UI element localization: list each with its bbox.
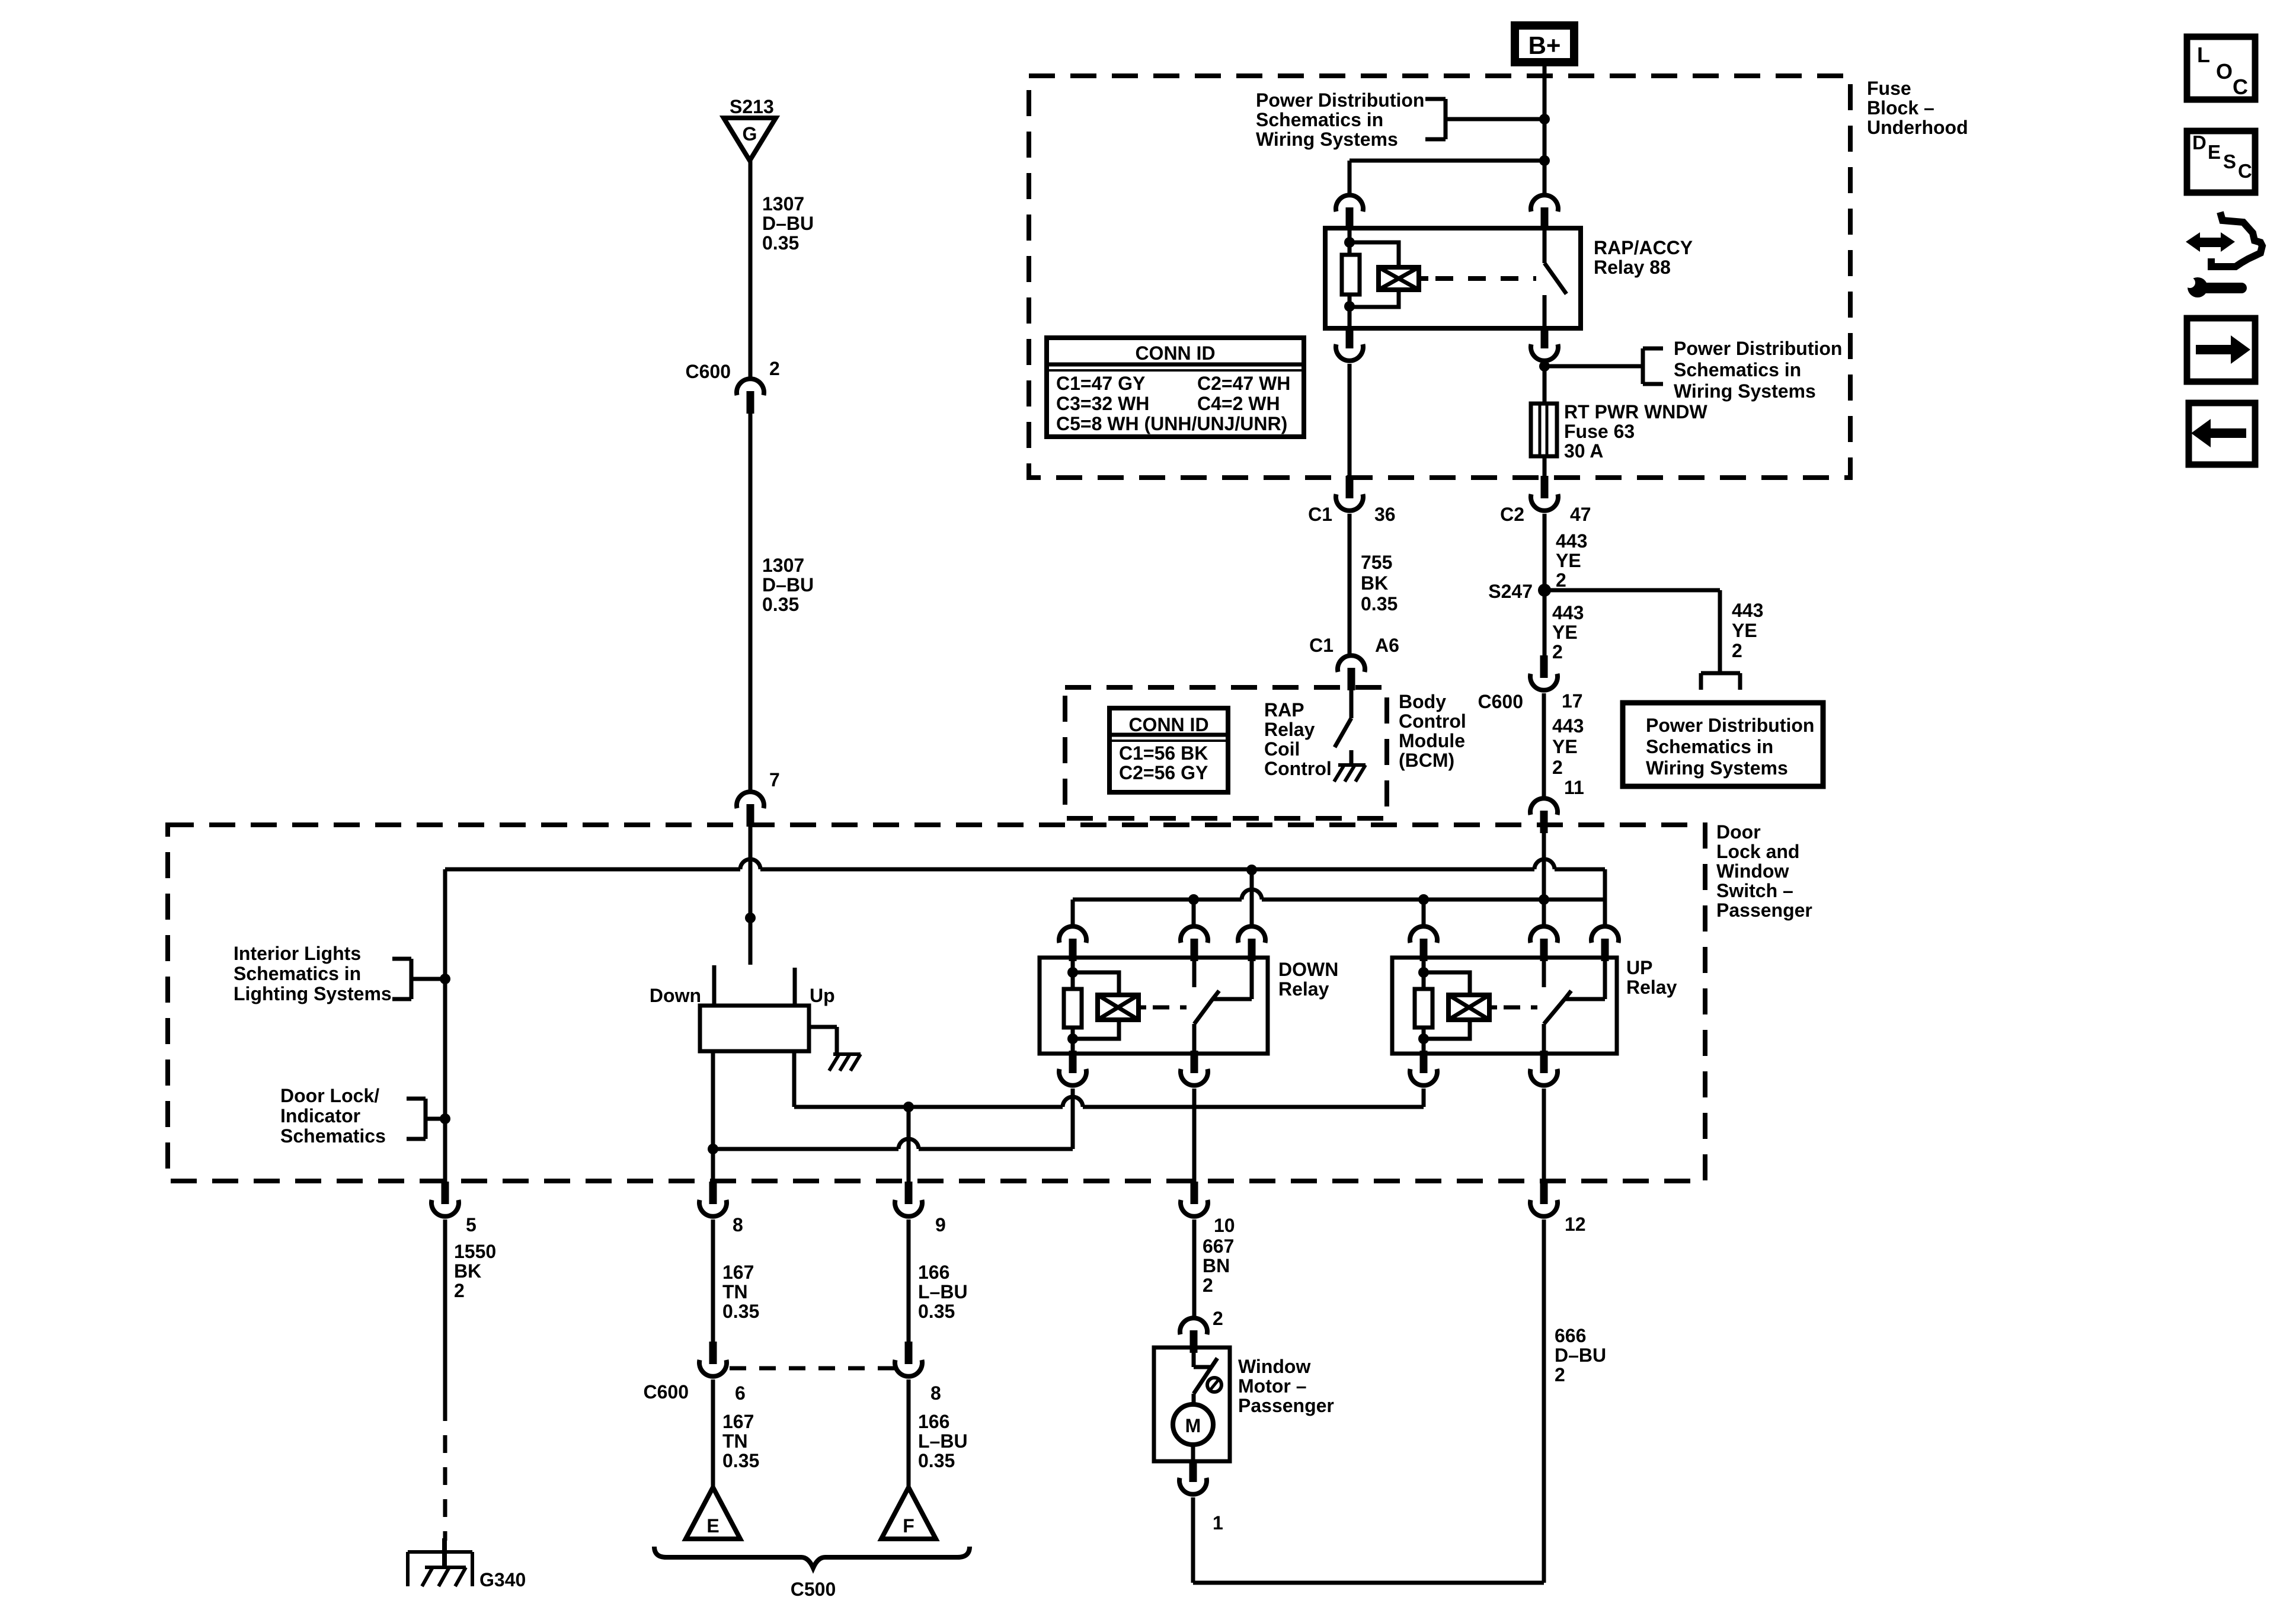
svg-text:YE: YE bbox=[1552, 622, 1578, 643]
crossover hop h2 over common wire bbox=[1242, 889, 1262, 900]
wire h2 stub 2402 bbox=[1422, 900, 1426, 924]
svg-text:0.35: 0.35 bbox=[762, 594, 799, 615]
junction dot h2 at 2014 bbox=[1188, 894, 1199, 905]
svg-text:CONN ID: CONN ID bbox=[1128, 714, 1208, 735]
wire UP nc pin in bbox=[1542, 960, 1546, 987]
wire 166 lower bbox=[907, 1379, 911, 1489]
junction dot door lock bbox=[440, 1113, 450, 1124]
svg-text:1307: 1307 bbox=[762, 555, 804, 576]
junction dot to connector 9 bbox=[903, 1102, 914, 1112]
svg-text:L–BU: L–BU bbox=[918, 1430, 968, 1452]
svg-text:2: 2 bbox=[1203, 1275, 1213, 1296]
junction dot h2 wire 11 bbox=[1539, 894, 1549, 905]
wire switch lower contact bbox=[1543, 295, 1547, 330]
wire DOWN switch out down bbox=[1192, 1089, 1197, 1183]
box Power Distribution Schematics in Wiring Systems bbox=[1623, 703, 1823, 786]
label pin 6 bbox=[735, 1382, 746, 1404]
junction dot DOWN coil top bbox=[1067, 967, 1078, 978]
svg-text:2: 2 bbox=[1555, 1364, 1565, 1385]
reference bracket top bbox=[1425, 99, 1446, 139]
label UP Relay bbox=[1626, 957, 1677, 998]
svg-text:Wiring Systems: Wiring Systems bbox=[1256, 129, 1398, 150]
svg-text:BK: BK bbox=[1361, 572, 1388, 594]
bus wire lower h2 bbox=[1073, 898, 1605, 902]
label Body Control Module BCM bbox=[1399, 691, 1466, 771]
connector DOWN coil bottom bbox=[1059, 1051, 1086, 1086]
svg-text:S213: S213 bbox=[730, 96, 774, 117]
label Down bbox=[650, 985, 701, 1006]
label 11 bbox=[1564, 777, 1584, 798]
svg-text:C1=47 GY: C1=47 GY bbox=[1056, 373, 1145, 394]
wire coil pin into relay bbox=[1348, 230, 1352, 255]
label 17 bbox=[1562, 690, 1583, 712]
svg-text:C4=2 WH: C4=2 WH bbox=[1197, 393, 1280, 414]
svg-text:F: F bbox=[903, 1515, 914, 1537]
label C500 bbox=[791, 1579, 836, 1600]
svg-text:Door: Door bbox=[1716, 821, 1761, 843]
bus wire upper h1 bbox=[445, 868, 1605, 872]
svg-text:2: 2 bbox=[1552, 757, 1563, 778]
svg-text:D–BU: D–BU bbox=[762, 574, 814, 596]
svg-text:443: 443 bbox=[1732, 600, 1763, 621]
connector C600 pin 2 bbox=[737, 379, 764, 414]
label C600 mid bbox=[1478, 691, 1524, 712]
label Door Lock and Window Switch Passenger bbox=[1716, 821, 1812, 921]
label C1 bbox=[1308, 504, 1332, 525]
svg-text:0.35: 0.35 bbox=[1361, 593, 1398, 614]
svg-text:CONN ID: CONN ID bbox=[1135, 343, 1215, 364]
svg-text:Schematics in: Schematics in bbox=[1646, 736, 1773, 757]
svg-text:RAP/ACCY: RAP/ACCY bbox=[1594, 237, 1693, 258]
body control module dashed box bbox=[1065, 687, 1387, 818]
wire coil bottom to box edge bbox=[1348, 295, 1352, 330]
label G340 bbox=[479, 1569, 526, 1590]
svg-text:Door Lock/: Door Lock/ bbox=[280, 1085, 379, 1106]
connector UP coil bottom bbox=[1410, 1051, 1437, 1086]
crossover hop h1 over wire 11 bbox=[1534, 859, 1555, 869]
connector pin 7 into switch box bbox=[737, 792, 764, 827]
rocker switch body bbox=[700, 1006, 809, 1051]
wire up-side bus y1868 bbox=[794, 1105, 1424, 1109]
svg-text:Down: Down bbox=[650, 985, 701, 1006]
wire down-side bus y1939 bbox=[713, 1147, 1073, 1151]
svg-text:L: L bbox=[2197, 43, 2210, 67]
junction dot fuse branch bbox=[1539, 361, 1550, 372]
crossover hop h1 over center wire bbox=[740, 859, 760, 869]
connector DOWN nc top pin bbox=[1181, 926, 1208, 961]
svg-text:443: 443 bbox=[1552, 715, 1584, 737]
svg-text:12: 12 bbox=[1565, 1214, 1586, 1235]
connector DOWN coil top pin bbox=[1059, 926, 1086, 961]
label 755 BK 0.35 bbox=[1361, 552, 1398, 614]
svg-text:D–BU: D–BU bbox=[762, 213, 814, 234]
crossover hop y1939 bbox=[898, 1139, 919, 1149]
wire DOWN common in bbox=[1213, 960, 1252, 999]
svg-text:Wiring Systems: Wiring Systems bbox=[1646, 757, 1788, 779]
fuse 63 symbol bbox=[1531, 404, 1557, 456]
relay box DOWN bbox=[1040, 958, 1268, 1054]
svg-text:1307: 1307 bbox=[762, 193, 804, 215]
wire C2-47 to S247 bbox=[1543, 514, 1547, 590]
connector DOWN switch bottom bbox=[1181, 1051, 1208, 1086]
label Power Distribution Schematics right bbox=[1674, 338, 1842, 402]
crossover hop y1868 bbox=[1063, 1097, 1083, 1107]
fuse block underhood dashed box bbox=[1029, 76, 1850, 478]
svg-text:30 A: 30 A bbox=[1564, 440, 1603, 462]
label 8 bbox=[733, 1214, 743, 1235]
svg-text:Window: Window bbox=[1716, 860, 1789, 882]
svg-text:C3=32 WH: C3=32 WH bbox=[1056, 393, 1149, 414]
wire S213 to C600 bbox=[749, 161, 753, 377]
coil symbol X-box UP bbox=[1448, 995, 1489, 1020]
relay box UP bbox=[1392, 958, 1617, 1054]
connector exit 12 bbox=[1530, 1182, 1558, 1217]
svg-text:10: 10 bbox=[1214, 1215, 1235, 1236]
svg-text:1: 1 bbox=[1213, 1512, 1223, 1534]
label 167 TN 0.35 upper bbox=[722, 1262, 759, 1322]
label 443 YE 2 below C600-17 bbox=[1552, 715, 1584, 778]
svg-text:2: 2 bbox=[769, 358, 780, 379]
switch blade UP bbox=[1544, 991, 1571, 1024]
terminal triangle E bbox=[686, 1487, 740, 1539]
connector relay switch bottom pin bbox=[1531, 326, 1558, 361]
label 166 L-BU 0.35 upper bbox=[918, 1262, 968, 1322]
wire DOWN coil bottom out bbox=[1071, 1028, 1075, 1055]
label RAP/ACCY Relay 88 bbox=[1594, 237, 1693, 278]
icon LOC box bbox=[2187, 37, 2255, 100]
svg-text:BK: BK bbox=[454, 1260, 481, 1282]
svg-text:Wiring Systems: Wiring Systems bbox=[1674, 380, 1816, 402]
svg-text:A6: A6 bbox=[1375, 635, 1399, 656]
ground triangle G S213 bbox=[724, 118, 776, 161]
connector motor pin 1 bbox=[1179, 1459, 1207, 1494]
label 443 YE 2 right branch bbox=[1732, 600, 1763, 661]
svg-text:Fuse: Fuse bbox=[1867, 78, 1911, 99]
coil loop UP bbox=[1424, 972, 1470, 1039]
wire blade to motor bbox=[1192, 1394, 1196, 1406]
svg-text:C600: C600 bbox=[644, 1381, 689, 1403]
dashed actuator link UP bbox=[1489, 1006, 1537, 1010]
label Interior Lights Schematics bbox=[234, 943, 392, 1004]
wire DOWN coil to bus bbox=[1071, 1089, 1075, 1149]
svg-text:C1: C1 bbox=[1308, 504, 1332, 525]
junction dot switch common bbox=[745, 913, 756, 923]
reference bracket door lock bbox=[407, 1099, 445, 1139]
label Fuse Block Underhood bbox=[1867, 78, 1968, 138]
wire coil branch down bbox=[1348, 161, 1352, 194]
switch contact pin Down bbox=[712, 965, 717, 1007]
door lock and window switch dashed box bbox=[168, 825, 1705, 1181]
svg-text:Relay: Relay bbox=[1278, 978, 1329, 1000]
wire S247 branch right bbox=[1544, 590, 1720, 671]
wire UP coil pin in bbox=[1422, 960, 1426, 989]
junction dot DOWN coil bottom bbox=[1067, 1033, 1078, 1044]
svg-text:(BCM): (BCM) bbox=[1399, 750, 1454, 771]
coil symbol X-box RAP bbox=[1379, 267, 1419, 290]
svg-text:Coil: Coil bbox=[1264, 738, 1300, 760]
svg-text:Lock and: Lock and bbox=[1716, 841, 1799, 862]
svg-text:667: 667 bbox=[1203, 1235, 1234, 1257]
wire 11 to UP relay pin bbox=[1542, 900, 1546, 924]
svg-text:TN: TN bbox=[722, 1430, 748, 1452]
label Power Distribution Schematics top bbox=[1256, 89, 1424, 150]
wire DOWN switch out bbox=[1192, 1024, 1197, 1055]
svg-text:C: C bbox=[2233, 75, 2248, 99]
svg-text:O: O bbox=[2216, 59, 2233, 84]
wire BCM switch upper bbox=[1350, 689, 1354, 718]
connector UP nc top pin bbox=[1530, 926, 1558, 961]
svg-text:Schematics in: Schematics in bbox=[234, 963, 361, 984]
label C600 lower bbox=[644, 1381, 689, 1403]
breaker thermal circle bbox=[1207, 1378, 1221, 1392]
svg-text:Block –: Block – bbox=[1867, 97, 1934, 119]
svg-text:M: M bbox=[1185, 1415, 1201, 1436]
wire h2 stub 2014 bbox=[1192, 900, 1196, 924]
svg-text:Switch –: Switch – bbox=[1716, 880, 1793, 901]
svg-text:Module: Module bbox=[1399, 730, 1465, 751]
svg-text:Schematics in: Schematics in bbox=[1256, 109, 1383, 130]
svg-text:B+: B+ bbox=[1528, 31, 1561, 59]
junction dot UP coil bottom bbox=[1418, 1033, 1429, 1044]
svg-text:C2: C2 bbox=[1500, 504, 1524, 525]
wire C600-2 to connector 7 bbox=[749, 414, 753, 790]
off-page staple symbol bbox=[1701, 673, 1740, 690]
wire pin 11 into box bbox=[1542, 833, 1546, 900]
svg-text:C5=8 WH (UNH/UNJ/UNR): C5=8 WH (UNH/UNJ/UNR) bbox=[1056, 413, 1287, 434]
svg-text:7: 7 bbox=[769, 769, 780, 790]
svg-text:666: 666 bbox=[1555, 1325, 1586, 1346]
label 167 TN 0.35 lower bbox=[722, 1411, 759, 1471]
svg-text:9: 9 bbox=[935, 1214, 946, 1235]
svg-text:167: 167 bbox=[722, 1262, 754, 1283]
coil symbol X-box DOWN bbox=[1098, 995, 1139, 1020]
junction dot B+ bracket bbox=[1539, 114, 1550, 124]
connector exit 9 bbox=[895, 1182, 922, 1217]
svg-text:Interior Lights: Interior Lights bbox=[234, 943, 361, 964]
breaker blade motor bbox=[1194, 1358, 1217, 1394]
svg-text:Schematics: Schematics bbox=[280, 1125, 386, 1147]
svg-text:Control: Control bbox=[1399, 710, 1466, 732]
svg-text:RT PWR WNDW: RT PWR WNDW bbox=[1564, 401, 1708, 422]
label 1307 D-BU 0.35 upper bbox=[762, 193, 814, 254]
label pin 8 bbox=[930, 1382, 941, 1404]
svg-text:Power Distribution: Power Distribution bbox=[1646, 715, 1814, 736]
switch blade RAP bbox=[1544, 263, 1566, 294]
connector UP coil top pin bbox=[1410, 926, 1437, 961]
wire switch output up-side bbox=[792, 1051, 797, 1107]
icon DESC box bbox=[2187, 131, 2255, 193]
svg-text:C600: C600 bbox=[686, 361, 731, 382]
motor circle M bbox=[1173, 1404, 1213, 1445]
connector relay coil top pin bbox=[1336, 195, 1363, 230]
svg-text:Power Distribution: Power Distribution bbox=[1674, 338, 1842, 359]
svg-text:C2=47 WH: C2=47 WH bbox=[1197, 373, 1290, 394]
svg-text:C1: C1 bbox=[1309, 635, 1334, 656]
reference bracket right bbox=[1643, 348, 1663, 384]
wire switch output down-side bbox=[711, 1051, 715, 1183]
connector C600 pin 17 bbox=[1530, 655, 1558, 690]
label C2 bbox=[1500, 504, 1524, 525]
reference bracket interior lights bbox=[392, 959, 445, 999]
svg-text:D: D bbox=[2192, 132, 2207, 153]
junction dot coil bottom bbox=[1344, 301, 1355, 312]
wire h2 left end down bbox=[1071, 900, 1075, 924]
wire switch pin into relay bbox=[1543, 230, 1547, 263]
svg-text:0.35: 0.35 bbox=[722, 1450, 759, 1471]
connector DOWN common top pin bbox=[1238, 926, 1265, 961]
connector relay coil bottom pin bbox=[1336, 326, 1363, 361]
svg-text:5: 5 bbox=[466, 1214, 477, 1235]
connector exit 8 bbox=[699, 1182, 727, 1217]
label A6 bbox=[1375, 635, 1399, 656]
motor box bbox=[1154, 1347, 1230, 1461]
icon schematic-view double arrow bbox=[2186, 232, 2235, 252]
svg-text:C2=56 GY: C2=56 GY bbox=[1119, 762, 1208, 783]
connector UP switch bottom bbox=[1530, 1051, 1558, 1086]
dashed actuator link DOWN bbox=[1139, 1006, 1187, 1010]
wire UP coil bottom out bbox=[1422, 1028, 1426, 1055]
table CONN ID fuse block bbox=[1047, 338, 1304, 437]
svg-text:C1=56 BK: C1=56 BK bbox=[1119, 742, 1208, 764]
label 667 BN 2 bbox=[1203, 1235, 1234, 1296]
svg-text:755: 755 bbox=[1361, 552, 1392, 573]
resistor relay coil bbox=[1342, 255, 1360, 295]
wire connector 9 down bbox=[907, 1107, 911, 1183]
svg-text:443: 443 bbox=[1556, 530, 1587, 552]
junction splice S247 bbox=[1538, 584, 1551, 597]
svg-text:Fuse 63: Fuse 63 bbox=[1564, 421, 1635, 442]
wire B+ down to relay bbox=[1543, 66, 1547, 194]
svg-text:Motor –: Motor – bbox=[1238, 1375, 1307, 1397]
ground G340 symbol bbox=[408, 1538, 472, 1586]
label DOWN Relay bbox=[1278, 959, 1338, 1000]
wire bracket to B+ wire bbox=[1446, 117, 1544, 121]
connector C600 pin 8 bbox=[895, 1342, 922, 1377]
svg-text:Indicator: Indicator bbox=[280, 1105, 360, 1126]
dashed actuator link RAP bbox=[1419, 276, 1536, 281]
coil loop DOWN bbox=[1073, 972, 1119, 1039]
wire motor return bbox=[1193, 1219, 1544, 1583]
connector C2 pin 47 bbox=[1531, 476, 1558, 511]
label C600 upper bbox=[686, 361, 731, 382]
svg-text:0.35: 0.35 bbox=[918, 1301, 955, 1322]
svg-text:YE: YE bbox=[1552, 736, 1578, 757]
wire left bus corner down bbox=[443, 869, 447, 1183]
wire DOWN nc pin in bbox=[1192, 960, 1197, 987]
wire UP switch out down bbox=[1542, 1089, 1546, 1183]
wire branch to relay coil bbox=[1350, 159, 1544, 163]
icon next arrow box bbox=[2187, 318, 2255, 382]
svg-text:443: 443 bbox=[1552, 602, 1584, 623]
svg-text:C: C bbox=[2238, 160, 2252, 182]
wire UP switch out bbox=[1542, 1024, 1546, 1055]
svg-text:1550: 1550 bbox=[454, 1241, 496, 1262]
svg-text:47: 47 bbox=[1570, 504, 1591, 525]
harness brace C500 bbox=[654, 1547, 970, 1568]
svg-text:Relay 88: Relay 88 bbox=[1594, 257, 1671, 278]
label motor pin 1 bbox=[1213, 1512, 1223, 1534]
label 1550 BK 2 bbox=[454, 1241, 496, 1301]
svg-text:2: 2 bbox=[454, 1280, 465, 1301]
svg-text:RAP: RAP bbox=[1264, 699, 1304, 721]
junction dot interior lights bbox=[440, 974, 450, 984]
wire fuse to C2 bbox=[1543, 456, 1547, 479]
label RAP Relay Coil Control bbox=[1264, 699, 1332, 779]
wire S247 to C600-17 bbox=[1543, 590, 1547, 658]
svg-text:Window: Window bbox=[1238, 1356, 1310, 1377]
svg-text:8: 8 bbox=[733, 1214, 743, 1235]
wire DOWN coil pin in bbox=[1071, 960, 1075, 989]
wire 167 lower bbox=[711, 1379, 715, 1489]
label C1 BCM bbox=[1309, 635, 1334, 656]
svg-text:166: 166 bbox=[918, 1411, 949, 1432]
junction dot h1 down-relay common bbox=[1246, 865, 1257, 875]
label S247 bbox=[1488, 581, 1533, 602]
coil loop wire bbox=[1350, 242, 1399, 307]
connector exit 10 bbox=[1181, 1182, 1208, 1217]
connector C600 pin 6 bbox=[699, 1342, 727, 1377]
label S213 bbox=[730, 96, 774, 117]
label Up bbox=[810, 985, 835, 1006]
svg-text:G340: G340 bbox=[479, 1569, 526, 1590]
dashed connector tie C600 bbox=[730, 1366, 897, 1371]
svg-text:Underhood: Underhood bbox=[1867, 117, 1968, 138]
wire motor to box bottom bbox=[1191, 1445, 1195, 1463]
svg-text:UP: UP bbox=[1626, 957, 1652, 978]
wire C600-17 to connector 11 bbox=[1542, 693, 1546, 796]
wire to right bracket bbox=[1544, 364, 1643, 369]
label 47 bbox=[1570, 504, 1591, 525]
label 5 bbox=[466, 1214, 477, 1235]
svg-text:E: E bbox=[706, 1515, 719, 1537]
connector C1 pin 36 bbox=[1336, 476, 1363, 511]
svg-text:D–BU: D–BU bbox=[1555, 1345, 1606, 1366]
svg-text:0.35: 0.35 bbox=[762, 232, 799, 254]
svg-text:BN: BN bbox=[1203, 1255, 1230, 1276]
wire h1 corner down bbox=[1603, 869, 1607, 924]
svg-text:36: 36 bbox=[1374, 504, 1396, 525]
svg-text:L–BU: L–BU bbox=[918, 1281, 968, 1302]
wire motor breaker upper bbox=[1194, 1352, 1211, 1367]
connector motor pin 2 bbox=[1180, 1318, 1207, 1353]
label 166 L-BU 0.35 lower bbox=[918, 1411, 968, 1471]
wire relay switch out down bbox=[1543, 364, 1547, 405]
svg-text:Relay: Relay bbox=[1626, 977, 1677, 998]
label 443 YE 2 above S247 bbox=[1556, 530, 1587, 591]
wire UP coil to bus bbox=[1422, 1089, 1426, 1107]
label 10 bbox=[1214, 1215, 1235, 1236]
wire 1550 solid bbox=[443, 1219, 447, 1403]
label RT PWR WNDW Fuse 63 30A bbox=[1564, 401, 1708, 462]
wire C1-36 to BCM bbox=[1348, 514, 1352, 654]
resistor UP coil bbox=[1415, 989, 1432, 1028]
svg-text:YE: YE bbox=[1556, 550, 1581, 571]
switch blade DOWN bbox=[1194, 991, 1219, 1024]
label 12 bbox=[1565, 1214, 1586, 1235]
svg-text:17: 17 bbox=[1562, 690, 1583, 712]
svg-text:Body: Body bbox=[1399, 691, 1446, 712]
wire 667 down bbox=[1192, 1219, 1197, 1317]
svg-text:0.35: 0.35 bbox=[918, 1450, 955, 1471]
label Door Lock Indicator Schematics bbox=[280, 1085, 386, 1147]
connector BCM pin A6 bbox=[1338, 655, 1365, 690]
junction dot h2 at 2402 bbox=[1418, 894, 1429, 905]
label motor pin 2 bbox=[1213, 1308, 1223, 1329]
connector relay switch top pin bbox=[1531, 195, 1558, 230]
wire switch common feed bbox=[749, 827, 753, 965]
svg-text:DOWN: DOWN bbox=[1278, 959, 1338, 980]
svg-text:Schematics in: Schematics in bbox=[1674, 359, 1801, 380]
